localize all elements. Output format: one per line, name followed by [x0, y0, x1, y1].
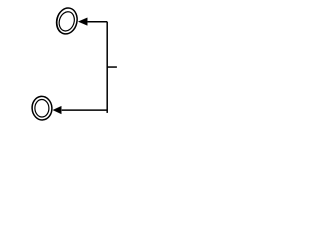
wire (mid tick stub)	[107, 66, 117, 68]
wire (vertical trunk)	[106, 22, 108, 113]
arrowhead into node B	[53, 106, 61, 114]
arrowhead into node A	[78, 18, 87, 26]
wire (top edge: corner to node A)	[88, 21, 108, 23]
wire (bottom edge: corner to node B)	[62, 109, 107, 111]
node A (top state, double ellipse)	[54, 6, 80, 37]
node B (bottom state, double ellipse)	[31, 96, 53, 121]
